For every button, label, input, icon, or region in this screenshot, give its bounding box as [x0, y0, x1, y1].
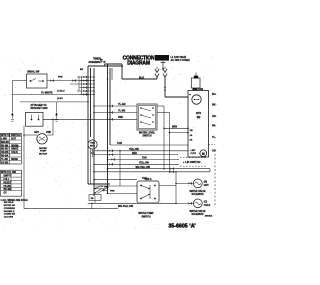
svg-text:WH-YELLOW: WH-YELLOW [136, 167, 151, 169]
svg-text:YL-WHITE: YL-WHITE [41, 91, 53, 94]
svg-text:PK-: PK- [212, 125, 216, 128]
svg-text:L1 120V 60HZ: L1 120V 60HZ [171, 56, 187, 59]
svg-text:RD-BK: RD-BK [1, 156, 9, 158]
svg-text:35-6605 ‘A’: 35-6605 ‘A’ [168, 224, 196, 230]
svg-text:PK-BK: PK-BK [1, 145, 9, 147]
svg-text:WH-BK: WH-BK [1, 142, 9, 144]
svg-text:YELLOW: YELLOW [139, 163, 150, 165]
svg-text:BRN: BRN [172, 126, 177, 128]
svg-text:LINT: LINT [191, 150, 197, 152]
svg-text:YL-BK: YL-BK [1, 159, 8, 161]
svg-text:OR-: OR- [212, 115, 217, 118]
svg-text:M: M [202, 152, 205, 156]
svg-text:COLD: COLD [204, 205, 211, 207]
svg-text:RESET: RESET [4, 182, 12, 184]
svg-text:(1 BU: (1 BU [57, 98, 63, 100]
svg-text:BU-: BU- [212, 93, 216, 96]
svg-text:DIAGRAM: DIAGRAM [127, 61, 150, 67]
svg-text:SOLENOID: SOLENOID [192, 214, 204, 216]
svg-text:EMPTY: EMPTY [4, 176, 12, 178]
svg-text:BK: BK [80, 69, 84, 71]
svg-text:GY-: GY- [212, 150, 216, 153]
svg-text:1M: 1M [91, 198, 94, 200]
svg-text:TAN: TAN [117, 142, 122, 145]
svg-text:COLORS: COLORS [4, 216, 14, 218]
svg-text:TIMER: TIMER [93, 58, 101, 61]
svg-text:YL-: YL- [212, 136, 216, 139]
svg-text:CODES BK: CODES BK [4, 214, 16, 216]
svg-text:RINSE: RINSE [11, 149, 18, 151]
svg-text:MTR: MTR [90, 146, 95, 148]
svg-text:PNK: PNK [58, 77, 63, 79]
svg-text:115V: 115V [196, 113, 202, 115]
svg-text:WH-YELLOW: WH-YELLOW [118, 205, 134, 208]
svg-text:L-WH: L-WH [1, 139, 7, 141]
svg-text:HOT: HOT [11, 139, 16, 141]
svg-text:SWITCH: SWITCH [141, 216, 150, 218]
svg-text:PNK: PNK [46, 132, 51, 134]
svg-text:SOLENOID: SOLENOID [192, 194, 204, 196]
svg-text:LT-BLU: LT-BLU [57, 91, 65, 93]
svg-text:HOT: HOT [204, 185, 209, 187]
svg-text:SHOWN N: SHOWN N [4, 211, 15, 213]
svg-text:BK-WH: BK-WH [4, 189, 12, 191]
svg-text:PNK: PNK [118, 116, 123, 119]
svg-text:FULL: FULL [4, 179, 10, 181]
svg-text:PNK: PNK [110, 191, 115, 193]
svg-text:SWITCH: SWITCH [142, 136, 151, 138]
svg-text:SWITCH: SWITCH [11, 134, 21, 137]
svg-text:TMR: TMR [104, 186, 109, 188]
svg-text:YL-BK: YL-BK [118, 110, 126, 113]
svg-text:OR-BK: OR-BK [1, 152, 9, 154]
svg-text:OTHRWSE: OTHRWSE [4, 208, 16, 210]
svg-text:FLTR: FLTR [191, 153, 197, 155]
svg-text:YELLOW: YELLOW [129, 149, 140, 151]
svg-text:(M): (M) [197, 117, 201, 119]
svg-text:AC ONLY FUSED: AC ONLY FUSED [171, 59, 191, 62]
svg-text:1M: 1M [190, 130, 193, 132]
svg-text:BLK: BLK [139, 76, 144, 79]
svg-text:ASSEMBLY ‘A’: ASSEMBLY ‘A’ [88, 61, 106, 64]
svg-text:(C): (C) [204, 202, 207, 204]
svg-text:(H): (H) [204, 182, 207, 184]
svg-text:RED: RED [132, 153, 137, 155]
svg-text:MOTOR: MOTOR [39, 153, 48, 155]
svg-text:GY-BK: GY-BK [1, 162, 9, 164]
svg-text:WTR LVL SW: WTR LVL SW [1, 171, 17, 174]
svg-text:NOTED SO: NOTED SO [4, 205, 16, 207]
svg-text:BK-BU: BK-BU [1, 149, 9, 151]
svg-text:WTR TE: WTR TE [1, 134, 11, 137]
svg-text:COLD: COLD [11, 152, 18, 154]
svg-text:GRY: GRY [34, 132, 39, 134]
svg-text:BK-: BK- [212, 104, 216, 107]
svg-text:PUMP: PUMP [40, 151, 47, 153]
